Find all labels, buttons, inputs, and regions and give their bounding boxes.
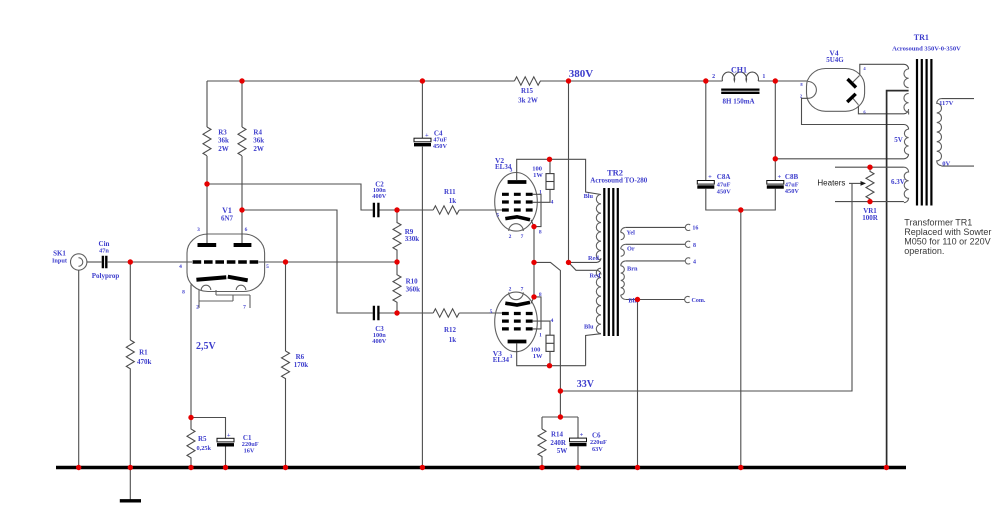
wire: V1 grid line out pin5 to R9/R10 node: [259, 261, 398, 263]
capacitor C4 47uF 450V electrolytic: [414, 130, 447, 150]
junction: B+/C8B: [773, 156, 778, 161]
junction: grid/R9/R10: [394, 259, 399, 264]
wire: V1a anode node to C2: [207, 184, 373, 210]
svg-text:240R: 240R: [550, 439, 567, 447]
V1 heater arcs: [201, 285, 246, 290]
junction: V1 cathode/R5/C1: [188, 415, 193, 420]
svg-text:+: +: [778, 173, 782, 180]
resistor R14 240R 5W: [538, 429, 546, 466]
wire: V2 cathode chain down: [533, 227, 535, 297]
V2 cathode plate: [505, 217, 530, 220]
svg-text:2: 2: [509, 234, 512, 240]
svg-text:R4: R4: [253, 129, 262, 137]
svg-text:117V: 117V: [939, 100, 954, 107]
svg-text:4: 4: [551, 318, 554, 324]
wire: SK1 ground drop: [78, 270, 80, 466]
svg-text:400V: 400V: [372, 338, 386, 345]
junction: V2 anode/screen res: [547, 157, 552, 162]
junction: 33V node: [558, 388, 563, 393]
junction: C3/R10/R12: [394, 310, 399, 315]
svg-text:450V: 450V: [433, 143, 447, 150]
svg-text:2: 2: [509, 287, 512, 293]
wire: C8A bottom / C8B bottom joining bar: [706, 189, 776, 210]
svg-text:36k: 36k: [253, 137, 264, 145]
svg-text:1: 1: [539, 332, 542, 338]
wire: secondary tap Com (Blk): [626, 299, 685, 301]
junction: V2 cathode: [531, 224, 536, 229]
V2 grids (3 dashed rows): [502, 194, 533, 210]
svg-text:R11: R11: [444, 188, 456, 196]
wire: B+ 380V rail (top horizontal): [207, 80, 808, 82]
junction: C2/R9/R11: [394, 207, 399, 212]
svg-text:1k: 1k: [449, 336, 457, 344]
svg-text:47n: 47n: [99, 247, 109, 254]
svg-text:+: +: [425, 132, 429, 139]
junction: gnd input: [128, 465, 133, 470]
TR1 HV winding upper half: [904, 69, 909, 88]
wire: CH1 term2 to coil start: [706, 80, 723, 82]
svg-text:Or: Or: [627, 246, 635, 253]
wire: R10 bottom node to R12: [397, 312, 433, 314]
pentode V3 EL34 envelope: [495, 292, 538, 352]
TR1 HV winding lower half: [904, 93, 909, 114]
junction: C8 common: [738, 207, 743, 212]
junction: TR2 centre tap: [566, 260, 571, 265]
potentiometer VR1 100R hum balance: [866, 167, 874, 201]
wire: V4 plate top to TR1 HV top: [860, 64, 909, 75]
V4 diode plate top (pin 4): [852, 76, 860, 84]
svg-text:5: 5: [266, 264, 269, 270]
V1 grid (dashed): [193, 260, 259, 264]
TR1 mains winding (right): [937, 99, 942, 166]
wire: mains 0V lead: [941, 165, 974, 167]
svg-text:33V: 33V: [577, 379, 595, 390]
V1 heater wiring and pin stubs 2,7: [199, 290, 250, 308]
junction: rail/CH1-1/V4: [773, 78, 778, 83]
svg-text:7: 7: [243, 305, 246, 311]
svg-text:4: 4: [179, 264, 182, 270]
resistor R10 360k: [393, 262, 401, 313]
svg-text:2: 2: [712, 74, 715, 80]
svg-text:Transformer TR1: Transformer TR1: [904, 217, 972, 227]
svg-text:Replaced with Sowter: Replaced with Sowter: [904, 227, 991, 237]
svg-text:R3: R3: [218, 129, 227, 137]
connector SK1 input jack: [52, 249, 87, 270]
svg-text:450V: 450V: [785, 188, 799, 195]
svg-text:8: 8: [539, 230, 542, 236]
capacitor C1 220uF 16V electrolytic: [217, 432, 259, 454]
svg-text:2W: 2W: [253, 145, 264, 153]
svg-text:5: 5: [496, 212, 499, 218]
resistor R4 36k 2W: [238, 127, 246, 156]
output terminal Com: [685, 296, 690, 302]
resistor R3 36k 2W: [203, 127, 211, 156]
svg-text:Blu: Blu: [584, 193, 594, 200]
rectifier V4 5U4G envelope: [807, 69, 865, 112]
wire: C4 branch from rail down to ground: [421, 81, 423, 466]
svg-text:C8B: C8B: [785, 173, 799, 181]
wire: R3 bottom to node: [206, 156, 208, 184]
ground symbol: [129, 469, 131, 500]
junction: grid/R6: [283, 259, 288, 264]
svg-text:16V: 16V: [244, 447, 255, 454]
svg-text:1: 1: [539, 189, 542, 195]
svg-text:470k: 470k: [137, 358, 152, 366]
V3 grids (3 dashed rows): [502, 314, 533, 329]
junction: VR1 top: [867, 165, 872, 170]
svg-text:M050 for 110 or 220V: M050 for 110 or 220V: [904, 237, 990, 247]
svg-text:1W: 1W: [533, 172, 543, 179]
wire: SK1 to Cin: [87, 261, 102, 263]
junction: TR2 Blk tap: [635, 297, 640, 302]
svg-text:5: 5: [490, 309, 493, 315]
V1 cathode plates: [196, 277, 247, 281]
wire: C8 common down to ground: [740, 210, 742, 466]
V2 heater arc: [509, 224, 524, 231]
svg-text:2,5V: 2,5V: [196, 341, 217, 352]
resistor R11 1k: [433, 206, 459, 214]
resistor R1 470k: [126, 340, 134, 466]
resistor R6 170k: [282, 351, 290, 466]
pentode V2 EL34 envelope: [495, 173, 538, 232]
wire: R9 top node to R11: [397, 209, 433, 211]
junction: gnd Blk: [635, 465, 640, 470]
svg-text:3: 3: [197, 227, 200, 233]
capacitor C8A 47uF 450V electrolytic: [697, 173, 731, 195]
svg-text:63V: 63V: [592, 446, 603, 453]
svg-text:Red: Red: [588, 255, 599, 262]
junction: V3 cathode: [531, 294, 536, 299]
wire: R4 bottom to node: [241, 156, 243, 210]
wire: R3 branch from rail: [206, 81, 208, 127]
wire: V3 suppressor g3 to cathode: [533, 297, 541, 329]
svg-text:Yel: Yel: [627, 229, 636, 236]
svg-text:47uF: 47uF: [717, 181, 731, 188]
svg-text:1k: 1k: [449, 197, 457, 205]
junction: gnd HT return: [884, 465, 889, 470]
capacitor C8B 47uF 450V electrolytic: [767, 173, 800, 195]
wire: C3 right to R10 bottom node: [380, 312, 398, 314]
junction: rail/TR2 CT: [566, 78, 571, 83]
V1 anode plate b (pin 6): [234, 243, 252, 247]
svg-text:Input: Input: [52, 258, 68, 265]
svg-text:R1: R1: [139, 349, 148, 357]
svg-text:6N7: 6N7: [221, 214, 234, 222]
resistor 100 1W (V2 screen): [546, 174, 554, 190]
svg-text:0,25k: 0,25k: [197, 445, 212, 452]
svg-text:Brn: Brn: [627, 265, 638, 272]
junction: gnd C8: [738, 465, 743, 470]
svg-text:Acrosound TO-280: Acrosound TO-280: [590, 177, 647, 185]
wire: R14/C6 top bar: [542, 417, 578, 438]
svg-text:8: 8: [539, 292, 542, 298]
svg-text:operation.: operation.: [904, 246, 944, 256]
svg-text:5U4G: 5U4G: [826, 56, 844, 64]
svg-text:3: 3: [510, 168, 513, 174]
TR2 core: [604, 188, 618, 336]
wire: secondary tap 4 (Brn): [626, 260, 686, 262]
svg-text:+: +: [580, 432, 584, 439]
triode V1 6N7 envelope: [187, 234, 265, 292]
V2 anode plate: [508, 180, 527, 184]
svg-text:7: 7: [521, 287, 524, 293]
junction: rail/CH1-2: [703, 78, 708, 83]
junction: gnd C4: [420, 465, 425, 470]
junction: input/R1: [128, 259, 133, 264]
wire: secondary tap 8 (Or): [626, 243, 686, 245]
wire: V3 cathode to pin8 dot: [531, 297, 534, 304]
svg-text:100R: 100R: [862, 214, 879, 222]
svg-text:3k 2W: 3k 2W: [518, 97, 538, 105]
junction: R14/C6 top: [558, 414, 563, 419]
svg-text:Red: Red: [590, 273, 601, 280]
svg-text:0V: 0V: [942, 160, 950, 167]
wire: V1 cathode pin8 drop: [190, 285, 192, 418]
svg-text:4: 4: [551, 200, 554, 206]
V3 anode plate: [508, 340, 527, 344]
wire: V3 screen resistor bottom to anode node: [549, 351, 551, 365]
junction: rail/C4: [420, 78, 425, 83]
svg-text:330k: 330k: [405, 235, 420, 243]
svg-text:Blu: Blu: [584, 324, 594, 331]
svg-text:360k: 360k: [406, 285, 421, 293]
output terminal 8: [685, 241, 690, 247]
wire: TR2 Blu bottom to V3 anode node: [550, 334, 602, 366]
capacitor C2 100n 400V: [372, 180, 386, 217]
svg-text:8: 8: [182, 289, 185, 295]
wire: R4 branch from rail: [241, 81, 243, 127]
resistor R5 0,25k: [187, 418, 195, 467]
svg-text:16: 16: [692, 226, 698, 232]
resistor R15 (3k 2W, in rail): [514, 77, 540, 85]
svg-text:R14: R14: [551, 430, 564, 438]
svg-text:2W: 2W: [218, 145, 229, 153]
wire: secondary tap 16 (Yel): [626, 226, 686, 228]
wire: R12 to V3 grid pin5: [459, 312, 503, 314]
TR1 HV centre tap to ground (HT return): [887, 91, 909, 466]
V4 diode plate bottom (pin 6): [852, 97, 859, 105]
junction: gnd C1: [223, 465, 228, 470]
wire: V3 screen g2 to resistor: [533, 321, 550, 335]
svg-text:6: 6: [245, 227, 248, 233]
wire: 6.3V heater bottom lead: [835, 201, 904, 203]
junction: rail/R4: [239, 78, 244, 83]
V1 anode plate a (pin 3): [198, 243, 217, 247]
svg-text:TR1: TR1: [914, 33, 929, 42]
junction: R3/V1 pin3: [204, 181, 209, 186]
junction: gnd R5: [188, 465, 193, 470]
wire: V1 pin3 lead: [206, 184, 208, 243]
wire: 33V node down to R14/C6: [559, 391, 561, 417]
wire: cathode node to bias dropper (bevel): [534, 262, 560, 391]
capacitor C6 220uF 63V electrolytic: [570, 432, 607, 453]
svg-text:400V: 400V: [372, 193, 386, 200]
wire: cathode node to C1: [191, 418, 226, 439]
junction: cathode chain mid: [531, 260, 536, 265]
svg-text:5V: 5V: [894, 136, 903, 144]
wire: CH1 term2 down to C8A: [705, 81, 707, 180]
wire: V2 anode node to TR2 Blu top: [550, 159, 602, 194]
wire: Blk tap to ground: [637, 300, 639, 467]
svg-text:R5: R5: [198, 435, 207, 443]
wire: C2 right to R9 top node: [380, 209, 398, 211]
junction: gnd C6: [575, 465, 580, 470]
svg-text:2: 2: [196, 305, 199, 311]
wire: Cin to V1 grid (input line): [108, 261, 192, 263]
svg-text:SK1: SK1: [53, 249, 66, 257]
wire: C1 bottom to ground: [225, 447, 227, 467]
wire: V4 plate bottom to TR1 HV bottom: [858, 106, 908, 114]
svg-text:+: +: [708, 173, 712, 180]
choke CH1 8H 150mA: [712, 65, 765, 105]
wire: 6.3V heater top lead: [835, 166, 904, 168]
svg-text:6.3V: 6.3V: [891, 178, 905, 186]
wire: V2 cathode to pin8 dot: [531, 220, 534, 227]
svg-text:450V: 450V: [717, 188, 731, 195]
TR1 core: [917, 59, 931, 206]
svg-text:3: 3: [510, 354, 513, 360]
wire: B+ node to TR1 5V winding bottom: [775, 154, 908, 159]
svg-text:R10: R10: [406, 277, 419, 285]
wire: R1 branch: [129, 262, 131, 340]
wire: 33V node to VR1 wiper: [560, 183, 852, 391]
wire: R6 branch: [285, 262, 287, 351]
wire: V1b anode node to C3: [242, 210, 373, 313]
wire: mains 117V lead: [941, 98, 974, 100]
svg-text:5W: 5W: [557, 447, 568, 455]
V3 cathode plate: [505, 302, 530, 305]
wire: 380V rail down to TR2 centre tap: [568, 81, 570, 262]
svg-text:C8A: C8A: [717, 173, 731, 181]
svg-text:EL34: EL34: [493, 356, 510, 364]
svg-text:Polyprop: Polyprop: [92, 272, 120, 280]
wire: R11 to V2 grid pin5: [459, 209, 503, 211]
junction: gnd SK1: [76, 465, 81, 470]
resistor 100 1W (V3 screen): [546, 335, 554, 351]
wire: screen resistor top to anode node: [549, 159, 551, 173]
svg-text:+: +: [227, 432, 231, 439]
svg-text:R12: R12: [444, 326, 457, 334]
svg-text:Acrosound 350V-0-350V: Acrosound 350V-0-350V: [892, 46, 961, 53]
svg-text:4: 4: [693, 259, 696, 265]
junction: gnd R6: [283, 465, 288, 470]
junction: R4/V1 pin6: [239, 207, 244, 212]
wire: V2 anode pin3 to node: [517, 159, 550, 180]
svg-text:170k: 170k: [294, 361, 309, 369]
junction: VR1 bottom: [867, 199, 872, 204]
wire: V2 screen g2 to resistor: [533, 189, 550, 202]
svg-text:R15: R15: [521, 87, 534, 95]
wire: V1 pin6 lead: [241, 210, 243, 243]
svg-text:CH1: CH1: [731, 65, 747, 74]
svg-text:R6: R6: [296, 353, 305, 361]
svg-text:Heaters: Heaters: [817, 179, 845, 188]
svg-text:380V: 380V: [569, 68, 594, 80]
capacitor C3 100n 400V: [372, 306, 386, 345]
TR1 6.3V winding: [904, 167, 909, 202]
svg-text:Com.: Com.: [692, 298, 706, 304]
wire: V3 anode pin3 to node: [517, 343, 550, 365]
svg-text:8H 150mA: 8H 150mA: [723, 97, 755, 105]
TR2 primary winding upper (Blu-Red): [596, 195, 601, 260]
V4 filament arc: [808, 82, 816, 99]
ground rail: [56, 466, 906, 470]
resistor R9 330k: [393, 210, 401, 262]
TR1 5V winding: [904, 129, 908, 154]
wire: C6 bottom to ground: [577, 446, 579, 466]
junction: V3 anode/screen res: [547, 363, 552, 368]
capacitor Cin 47n Polyprop: [92, 240, 120, 280]
resistor R12 1k: [433, 309, 459, 317]
svg-text:36k: 36k: [218, 137, 229, 145]
wire: V2 suppressor g3 to cathode: [533, 194, 541, 226]
svg-text:7: 7: [521, 234, 524, 240]
svg-text:8: 8: [693, 243, 696, 249]
wire: TR2 centre tap: [569, 258, 602, 274]
output terminal 16: [685, 224, 690, 230]
wire: V4 filament pin2 to TR1 5V top: [802, 98, 909, 129]
VR1 wiper arrow: [849, 182, 862, 184]
TR2 secondary winding with taps: [621, 227, 626, 299]
V3 heater arc: [509, 292, 524, 299]
output terminal 4: [685, 258, 690, 264]
junction: gnd R14: [539, 465, 544, 470]
TR2 primary winding lower (Red-Blu): [596, 268, 601, 333]
svg-text:1W: 1W: [533, 353, 543, 360]
svg-text:1: 1: [762, 74, 765, 80]
wire: CH1 term1 down to C8B: [774, 81, 776, 180]
